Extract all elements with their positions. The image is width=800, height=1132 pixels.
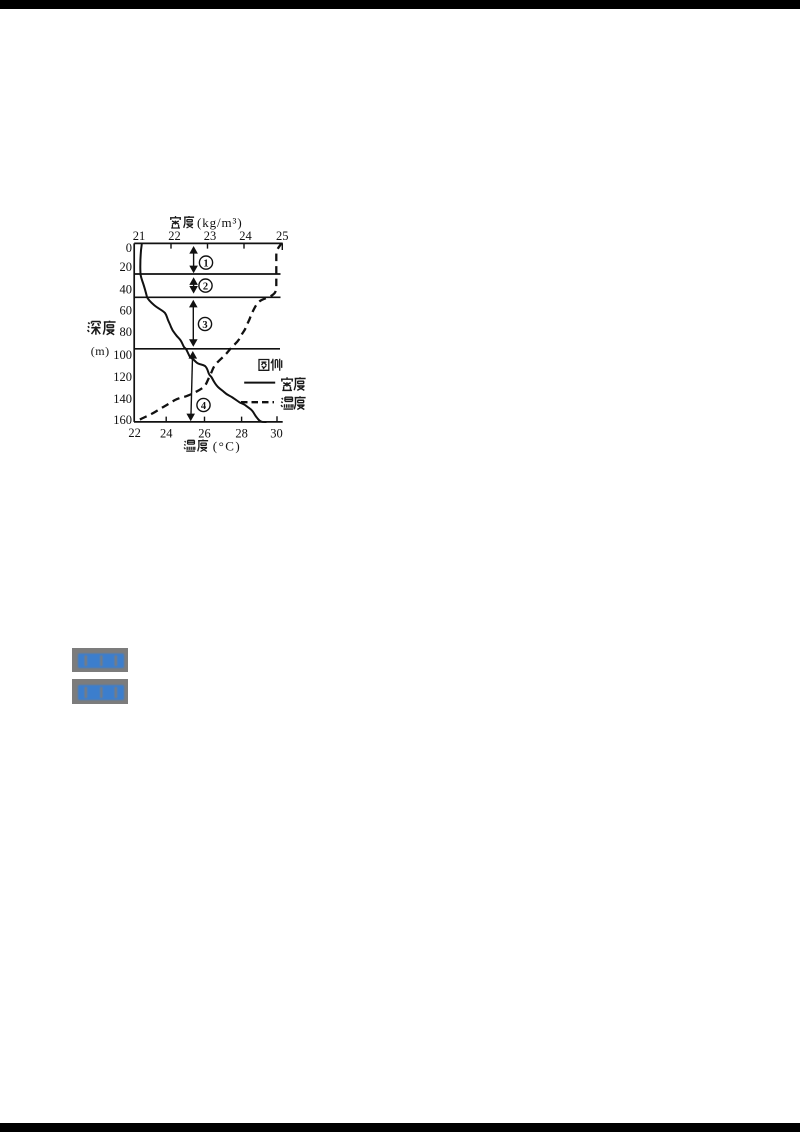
legend label temperature (281, 396, 306, 409)
svg-text:140: 140 (113, 392, 132, 406)
white panel background (80, 207, 320, 457)
page separator bar top (0, 0, 800, 9)
svg-text:26: 26 (198, 426, 211, 440)
svg-text:(kg/m³): (kg/m³) (197, 215, 243, 230)
legend solid sample line (244, 382, 275, 384)
svg-text:25: 25 (276, 229, 289, 243)
horizontal layer line 3 (134, 348, 280, 350)
double arrow segment 1 (189, 246, 198, 273)
circled 1 (199, 256, 212, 270)
svg-text:120: 120 (113, 370, 132, 384)
svg-text:3: 3 (202, 320, 207, 331)
svg-text:20: 20 (120, 260, 133, 274)
svg-text:1: 1 (203, 259, 208, 270)
svg-text:23: 23 (204, 229, 217, 243)
depth labels 0-160 (113, 241, 132, 427)
temperature dashed curve (136, 244, 281, 422)
y-axis title: depth (m) (88, 321, 116, 335)
svg-text:21: 21 (133, 229, 146, 243)
double arrow segment 2 (189, 277, 198, 293)
analysis chip (72, 679, 128, 704)
svg-text:22: 22 (128, 426, 141, 440)
svg-text:2: 2 (203, 282, 208, 293)
svg-text:24: 24 (239, 229, 252, 243)
legend title (259, 360, 269, 371)
svg-text:22: 22 (168, 229, 181, 243)
x-axis title: temperature (C) (184, 440, 195, 451)
svg-text:30: 30 (270, 426, 283, 440)
title: density (kg/m3) (170, 216, 181, 228)
legend dashed sample line (241, 401, 274, 403)
svg-text:80: 80 (120, 325, 133, 339)
top axis ticks at 22,23,24,25 (171, 243, 282, 250)
legend label density (281, 377, 306, 390)
svg-text:24: 24 (160, 426, 173, 440)
top axis numeric labels 21-25 (133, 229, 289, 243)
chart panel: ocean density/temperature vs depth (80, 207, 320, 457)
plot frame: left axis, top axis, bottom axis (134, 243, 283, 422)
density solid curve (140, 244, 266, 422)
bottom axis numeric labels 22-30 (128, 426, 282, 441)
svg-text:0: 0 (126, 241, 132, 255)
horizontal layer line 1 (134, 273, 280, 275)
circled 3 (198, 317, 211, 331)
bottom axis ticks at 24,26,28,30 (166, 416, 277, 422)
svg-text:(m): (m) (91, 344, 110, 358)
svg-text:40: 40 (120, 283, 133, 297)
double arrow segment 4 (186, 351, 197, 421)
circled 2 (199, 279, 212, 293)
horizontal layer line 2 (134, 296, 280, 298)
svg-text:100: 100 (113, 348, 132, 362)
answer chip (72, 648, 128, 672)
double arrow segment 3 (189, 300, 198, 347)
circled 4 (197, 398, 210, 412)
svg-text:(°C): (°C) (213, 439, 242, 454)
svg-text:60: 60 (120, 304, 133, 318)
svg-text:4: 4 (201, 401, 207, 412)
page separator bar bottom (0, 1123, 800, 1132)
